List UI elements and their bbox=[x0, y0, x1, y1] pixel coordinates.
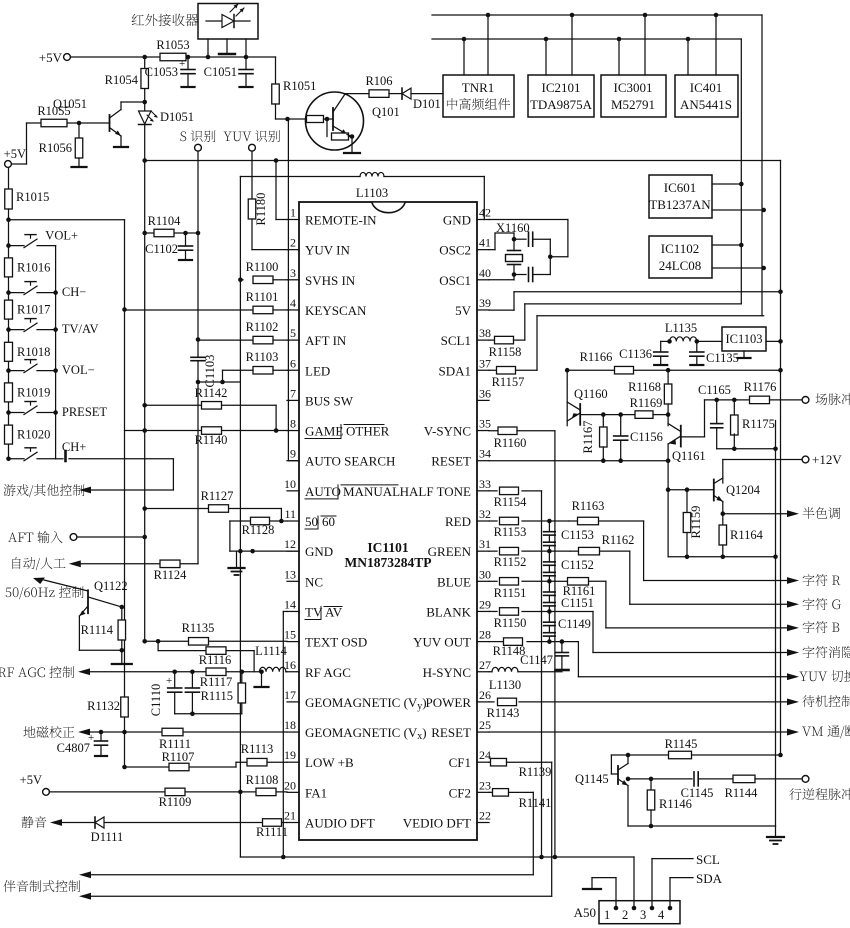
switch CH− bbox=[6, 282, 86, 300]
svg-text:IC2101: IC2101 bbox=[542, 80, 581, 95]
resistor R1055 bbox=[37, 104, 70, 127]
svg-text:C4807: C4807 bbox=[57, 741, 90, 755]
inductor L1130 on H-SYNC bbox=[489, 667, 562, 692]
wire 字符消隐 step bbox=[593, 611, 787, 652]
resistor R1159 vertical bbox=[683, 490, 703, 557]
svg-text:CF2: CF2 bbox=[449, 785, 471, 800]
resistor R1145 bbox=[665, 737, 698, 759]
+5V terminal bottom bbox=[20, 773, 50, 795]
svg-text:10: 10 bbox=[284, 477, 296, 491]
pin 10 label AUTO/MANUAL bbox=[305, 484, 400, 499]
wire R1128 left vertical bbox=[229, 521, 231, 551]
svg-text:C1145: C1145 bbox=[681, 786, 714, 800]
svg-text:CH−: CH− bbox=[62, 285, 86, 299]
resistor R1117 on RF AGC line bbox=[200, 668, 232, 689]
resistor R1128 bbox=[230, 517, 287, 537]
pin 39 stub and number bbox=[477, 296, 491, 310]
IC3001 supply wires bbox=[617, 13, 648, 75]
svg-text:Q1122: Q1122 bbox=[94, 579, 128, 593]
svg-text:R1166: R1166 bbox=[580, 350, 613, 364]
capacitor C4807 polarized bbox=[57, 732, 108, 756]
YUV 识别 terminal bbox=[224, 130, 280, 151]
pin 11 stub and number bbox=[284, 507, 299, 521]
svg-text:R1175: R1175 bbox=[742, 417, 775, 431]
svg-text:CF1: CF1 bbox=[449, 755, 471, 770]
IC1101 notch bbox=[372, 203, 405, 213]
resistor R1150 on BLANK bbox=[489, 608, 593, 630]
pin 41 label OSC2 bbox=[439, 243, 471, 258]
wire Q101 collector to R106 bbox=[345, 93, 370, 95]
resistor R1146 vertical bbox=[647, 779, 692, 828]
pin 41 stub and number bbox=[477, 236, 491, 250]
transistor Q1160 bbox=[567, 370, 607, 426]
pin 21 label AUDIO DFT bbox=[305, 816, 375, 831]
svg-text:C1136: C1136 bbox=[619, 347, 652, 361]
IC1103 ground bbox=[738, 351, 751, 358]
svg-text:28: 28 bbox=[479, 628, 491, 642]
svg-text:R1115: R1115 bbox=[201, 689, 233, 703]
wire FA1 to A50 pin2 bbox=[240, 857, 634, 908]
wire R1127 to pin11 bbox=[279, 509, 284, 524]
A50 pin3 SCL wire bbox=[652, 852, 720, 908]
wire bottom rail Q1204 bbox=[668, 555, 775, 560]
pin 17 stub and number bbox=[284, 688, 299, 702]
pin 28 stub and number bbox=[477, 628, 491, 642]
long horizontal wire top bbox=[142, 158, 780, 163]
svg-text:D1051: D1051 bbox=[160, 110, 194, 124]
wire +5V rail to R1051 corner bbox=[71, 56, 276, 58]
pin 25 label RESET bbox=[431, 725, 471, 740]
wire SDA1 step up bbox=[537, 316, 764, 370]
IR receiver box 红外接收器 bbox=[132, 4, 258, 40]
pin 29 stub and number bbox=[477, 597, 491, 611]
resistor R1108 bbox=[246, 773, 279, 796]
pin 25 stub and number bbox=[477, 718, 491, 732]
capacitor C1145 bbox=[681, 772, 733, 800]
svg-text:R1160: R1160 bbox=[494, 436, 527, 450]
inductor L1135 bbox=[661, 321, 722, 344]
pin 9 stub and number bbox=[287, 447, 299, 461]
wire C1110 cluster bottom bbox=[175, 712, 242, 717]
svg-text:+5V: +5V bbox=[4, 147, 26, 161]
svg-text:VOL+: VOL+ bbox=[45, 229, 78, 243]
transistor Q1145 bbox=[575, 755, 628, 826]
svg-text:30: 30 bbox=[479, 567, 491, 581]
svg-text:23: 23 bbox=[479, 778, 491, 792]
svg-text:14: 14 bbox=[284, 597, 296, 611]
wire 5V step bbox=[489, 290, 783, 311]
svg-text:TB1237AN: TB1237AN bbox=[649, 197, 711, 212]
svg-text:R1145: R1145 bbox=[665, 737, 698, 751]
pin 38 label SCL1 bbox=[441, 333, 471, 348]
wire Q1161 emitter down bbox=[666, 461, 687, 557]
地磁校正 arrow bbox=[23, 726, 287, 738]
svg-text:R1051: R1051 bbox=[283, 79, 316, 93]
pin 22 stub and number bbox=[477, 809, 491, 823]
pin 1 label REMOTE-IN bbox=[305, 213, 377, 228]
LED D1051 bbox=[139, 102, 195, 125]
svg-text:D101: D101 bbox=[413, 97, 441, 111]
svg-text:24LC08: 24LC08 bbox=[659, 258, 702, 273]
svg-text:C1151: C1151 bbox=[561, 596, 594, 610]
svg-text:33: 33 bbox=[479, 477, 491, 491]
AFT输入 terminal bbox=[8, 531, 145, 543]
transistor Q1122 bbox=[79, 579, 127, 653]
待机控制 arrow bbox=[787, 695, 850, 707]
svg-text:C1153: C1153 bbox=[561, 528, 594, 542]
capacitor C1151 bbox=[544, 581, 594, 611]
svg-text:GREEN: GREEN bbox=[428, 544, 472, 559]
resistor R1107 bbox=[125, 750, 237, 771]
resistor R1180 vertical bbox=[248, 151, 287, 249]
pin 30 label BLUE bbox=[437, 574, 471, 589]
wire ladder left bus bbox=[8, 246, 10, 459]
svg-text:42: 42 bbox=[479, 206, 491, 220]
svg-text:AFT IN: AFT IN bbox=[305, 333, 347, 348]
svg-text:+5V: +5V bbox=[20, 773, 42, 787]
svg-text:R1153: R1153 bbox=[494, 525, 527, 539]
pin 3 label SVHS IN bbox=[305, 273, 356, 288]
pin 39 label 5V bbox=[455, 303, 472, 318]
svg-text:R1154: R1154 bbox=[494, 495, 528, 509]
svg-text:POWER: POWER bbox=[426, 695, 472, 710]
svg-text:KEYSCAN: KEYSCAN bbox=[305, 303, 367, 318]
IC box IC2101 TDA9875A bbox=[528, 75, 594, 117]
wire half tone vertical bbox=[539, 491, 544, 859]
diode D1111 bbox=[91, 817, 124, 844]
wire FA1 row bbox=[50, 791, 288, 793]
svg-text:R1056: R1056 bbox=[39, 141, 72, 155]
top bus wire 2 bbox=[432, 38, 741, 40]
svg-text:17: 17 bbox=[284, 688, 296, 702]
svg-text:R1163: R1163 bbox=[572, 499, 605, 513]
svg-text:R1127: R1127 bbox=[201, 489, 234, 503]
伴音制式控制 line1 arrow bbox=[3, 871, 533, 892]
YUV切换 arrow bbox=[787, 670, 850, 682]
svg-text:GND: GND bbox=[305, 544, 333, 559]
pin 23 stub and number bbox=[477, 778, 491, 792]
VM通/断 arrow bbox=[787, 725, 850, 738]
svg-text:R1108: R1108 bbox=[246, 773, 279, 787]
svg-text:R106: R106 bbox=[365, 74, 392, 88]
pin 15 label TEXT OSD bbox=[305, 635, 367, 650]
svg-text:R1055: R1055 bbox=[37, 104, 70, 118]
字符G arrow bbox=[787, 598, 841, 610]
svg-text:50: 50 bbox=[305, 514, 318, 529]
svg-text:R1104: R1104 bbox=[148, 214, 182, 228]
svg-text:+: + bbox=[179, 58, 185, 70]
svg-text:R1116: R1116 bbox=[199, 653, 231, 667]
capacitor C1165 bbox=[698, 383, 731, 449]
wire YUV切换 step bbox=[578, 642, 787, 677]
wire bus x144 bbox=[142, 161, 147, 644]
IC box IC601 TB1237AN bbox=[649, 175, 712, 218]
svg-text:21: 21 bbox=[284, 809, 296, 823]
capacitor C1152 bbox=[544, 551, 594, 581]
svg-text:C1147: C1147 bbox=[520, 653, 553, 667]
wire S识别 vertical bbox=[196, 151, 201, 356]
junction R1054 top bbox=[142, 55, 147, 60]
capacitor C1103 bbox=[191, 355, 217, 388]
wire base row R1055 bbox=[27, 122, 110, 124]
wire keypad top branch bbox=[6, 217, 124, 222]
svg-text:20: 20 bbox=[284, 778, 296, 792]
pin 31 label GREEN bbox=[428, 544, 472, 559]
resistor R1144 bbox=[725, 775, 802, 800]
pin 18 stub and number bbox=[284, 718, 299, 732]
pin 1 stub and number bbox=[287, 206, 299, 220]
Q101 internals bbox=[306, 94, 400, 153]
IR receiver left pin wire bbox=[206, 39, 211, 59]
svg-text:L1103: L1103 bbox=[356, 186, 388, 200]
+5V terminal left mid bbox=[4, 147, 26, 167]
svg-text:SCL: SCL bbox=[696, 852, 720, 867]
svg-text:3: 3 bbox=[290, 266, 296, 280]
svg-text:R1162: R1162 bbox=[602, 533, 635, 547]
IC box IC401 AN5441S bbox=[675, 75, 738, 117]
svg-text:4: 4 bbox=[658, 908, 665, 922]
wire CF1 down to 伴音 line2 bbox=[551, 762, 553, 896]
wire R1142 to pin8 bbox=[274, 405, 279, 433]
svg-text:27: 27 bbox=[479, 658, 491, 672]
pin 17 label GEOMAGNETIC (Vy) bbox=[305, 695, 427, 712]
svg-text:LED: LED bbox=[305, 363, 330, 378]
pin 10 stub and number bbox=[284, 477, 299, 491]
pin12 ground symbol bbox=[229, 551, 245, 575]
pin 24 label CF1 bbox=[449, 755, 471, 770]
IC1102 wires to buses bbox=[712, 243, 766, 271]
pin 30 stub and number bbox=[477, 567, 491, 581]
wire long vertical x240 ground chain lower bbox=[238, 382, 243, 857]
pin12 GND wire bbox=[230, 549, 299, 554]
svg-text:11: 11 bbox=[284, 507, 296, 521]
pin 19 stub and number bbox=[284, 748, 299, 762]
pin 32 stub and number bbox=[477, 507, 491, 521]
IR receiver middle pin wire with bar bbox=[219, 39, 235, 54]
svg-text:R1124: R1124 bbox=[154, 568, 188, 582]
svg-text:4: 4 bbox=[290, 296, 296, 310]
svg-text:RED: RED bbox=[445, 514, 471, 529]
wire +5V left to R1055 branch bbox=[12, 123, 27, 164]
pin 34 label RESET bbox=[431, 454, 471, 469]
pin 13 label NC bbox=[305, 574, 323, 589]
capacitor C1135 bbox=[690, 341, 739, 365]
svg-text:H-SYNC: H-SYNC bbox=[423, 665, 471, 680]
svg-text:SDA1: SDA1 bbox=[438, 363, 471, 378]
pin 13 stub and number bbox=[284, 567, 299, 581]
top bus wire 1 bbox=[432, 14, 762, 16]
svg-text:R1142: R1142 bbox=[195, 386, 228, 400]
svg-text:9: 9 bbox=[290, 447, 296, 461]
svg-text:A50: A50 bbox=[574, 905, 596, 920]
switch VOL− bbox=[6, 360, 94, 378]
capacitor C1051 bbox=[204, 57, 253, 87]
svg-text:RF AGC: RF AGC bbox=[305, 665, 351, 680]
capacitor C1110b bbox=[185, 669, 199, 713]
svg-text:R1139: R1139 bbox=[519, 765, 552, 779]
pin 24 stub and number bbox=[477, 748, 491, 762]
capacitor on OSC1 bbox=[514, 268, 550, 282]
svg-text:REMOTE-IN: REMOTE-IN bbox=[305, 213, 377, 228]
IC box TNR1 bbox=[443, 75, 514, 117]
pin 8 stub and number bbox=[287, 417, 299, 431]
svg-text:YUV OUT: YUV OUT bbox=[413, 635, 471, 650]
svg-text:R1111: R1111 bbox=[256, 825, 288, 839]
svg-text:X1160: X1160 bbox=[496, 221, 530, 235]
svg-text:IC1101: IC1101 bbox=[367, 540, 409, 555]
svg-text:+5V: +5V bbox=[39, 50, 63, 65]
pin 21 stub and number bbox=[284, 809, 299, 823]
svg-text:+: + bbox=[166, 675, 172, 687]
svg-text:R1019: R1019 bbox=[17, 385, 50, 399]
wire TV/AV long vertical bbox=[281, 611, 286, 859]
svg-text:IC3001: IC3001 bbox=[614, 80, 653, 95]
svg-text:HALF TONE: HALF TONE bbox=[400, 484, 471, 499]
resistor R1141 on CF2 bbox=[489, 789, 551, 810]
svg-text:AUTO SEARCH: AUTO SEARCH bbox=[305, 454, 395, 469]
svg-text:NC: NC bbox=[305, 574, 323, 589]
svg-text:C1152: C1152 bbox=[561, 558, 594, 572]
resistor R1167 vertical bbox=[581, 415, 607, 461]
transistor Q1051 bbox=[53, 97, 147, 147]
pin 35 stub and number bbox=[477, 417, 491, 431]
resistor R1151 on BLUE bbox=[489, 578, 555, 600]
pin 15 stub and number bbox=[284, 628, 299, 642]
svg-text:YUV IN: YUV IN bbox=[305, 243, 351, 258]
wire keypad right bus bbox=[55, 246, 57, 459]
capacitor C1153 bbox=[544, 521, 594, 551]
pin 27 stub and number bbox=[477, 658, 491, 672]
resistor R1143 on POWER bbox=[487, 698, 787, 720]
pin 28 label YUV OUT bbox=[413, 635, 471, 650]
capacitor C1102 bbox=[145, 233, 192, 260]
resistor R1102 on AFT IN bbox=[198, 320, 287, 344]
svg-text:R1158: R1158 bbox=[489, 345, 522, 359]
resistor R1015 vertical bbox=[5, 168, 50, 246]
字符R arrow bbox=[787, 574, 840, 586]
wire CF2 down to 伴音 line1 bbox=[532, 792, 534, 874]
自动/人工 arrow bbox=[12, 557, 198, 570]
pin 12 stub and number bbox=[284, 537, 299, 551]
svg-text:OSC2: OSC2 bbox=[439, 243, 471, 258]
svg-text:TV: TV bbox=[305, 604, 323, 619]
svg-text:M52791: M52791 bbox=[611, 97, 655, 112]
svg-text:R1168: R1168 bbox=[628, 380, 661, 394]
svg-text:BLUE: BLUE bbox=[437, 574, 471, 589]
resistor R1101 on KEYSCAN bbox=[125, 290, 288, 314]
pin 37 stub and number bbox=[477, 356, 491, 370]
IR receiver right pin wire bbox=[244, 39, 249, 59]
resistor R1169 bbox=[630, 396, 669, 418]
svg-text:R1016: R1016 bbox=[17, 260, 50, 274]
svg-text:D1111: D1111 bbox=[91, 830, 124, 844]
pin 38 stub and number bbox=[477, 326, 491, 340]
游戏/其他控制 arrow bbox=[4, 459, 174, 497]
svg-text:R1111: R1111 bbox=[159, 737, 191, 751]
svg-text:R1143: R1143 bbox=[487, 706, 520, 720]
svg-text:Q1160: Q1160 bbox=[574, 387, 608, 401]
svg-text:GEOMAGNETIC (Vy): GEOMAGNETIC (Vy) bbox=[305, 695, 427, 712]
pin 5 stub and number bbox=[287, 326, 299, 340]
resistor R1111 pin21 bbox=[256, 819, 288, 839]
RF AGC 控制 arrow bbox=[0, 666, 259, 678]
wire Q1161 base to C1165 rail bbox=[681, 400, 705, 437]
pin 19 label LOW +B bbox=[305, 755, 354, 770]
svg-text:R1132: R1132 bbox=[87, 699, 120, 713]
+5V terminal top bbox=[39, 50, 71, 65]
capacitor C1156 bbox=[614, 415, 663, 461]
resistor R1056 vertical bbox=[39, 123, 87, 167]
inductor L1114 bbox=[255, 644, 287, 672]
vertical bus right x780 bbox=[780, 161, 782, 756]
svg-text:VEDIO DFT: VEDIO DFT bbox=[403, 816, 471, 831]
IC1103 right wire bbox=[766, 339, 783, 344]
svg-text:+12V: +12V bbox=[812, 452, 842, 467]
resistor R1176 bbox=[744, 380, 802, 404]
capacitor C1053 polarized bbox=[145, 55, 195, 87]
wire 字符R step bbox=[644, 521, 787, 581]
wire R1051 branch down bbox=[275, 57, 277, 84]
svg-text:R1100: R1100 bbox=[246, 260, 279, 274]
svg-text:R1114: R1114 bbox=[81, 623, 114, 637]
IC2101 supply wires bbox=[544, 13, 575, 75]
resistor R1132 vertical bbox=[87, 697, 128, 717]
pin 4 label KEYSCAN bbox=[305, 303, 367, 318]
pin 26 label POWER bbox=[426, 695, 472, 710]
connector A50 box bbox=[574, 901, 680, 924]
resistor R1018 vertical bbox=[5, 342, 51, 361]
svg-text:R1180: R1180 bbox=[254, 193, 268, 226]
pin 14 stub and number bbox=[284, 597, 299, 611]
capacitor on OSC2 bbox=[514, 232, 550, 246]
S 识别 terminal bbox=[180, 130, 215, 151]
vertical wire x775 bbox=[773, 421, 778, 827]
resistor R1166 bbox=[580, 350, 634, 374]
svg-text:C1135: C1135 bbox=[706, 351, 739, 365]
svg-text:VOL−: VOL− bbox=[62, 363, 95, 377]
wire R1169 row bbox=[601, 412, 670, 417]
pin 23 label CF2 bbox=[449, 785, 471, 800]
resistor R1051 vertical bbox=[272, 79, 317, 119]
wire Q1160 bottom rail pin34 bbox=[489, 458, 670, 463]
transistor Q1161 bbox=[668, 415, 705, 463]
svg-text:15: 15 bbox=[284, 628, 296, 642]
svg-text:R1140: R1140 bbox=[195, 433, 228, 447]
resistor R1116 bbox=[158, 641, 254, 671]
pin 6 stub and number bbox=[287, 356, 299, 370]
pin 5 label AFT IN bbox=[305, 333, 347, 348]
svg-text:R1103: R1103 bbox=[246, 350, 279, 364]
行逆程脉冲 terminal bbox=[789, 776, 850, 800]
wire C1103 bottom row bbox=[196, 380, 241, 385]
svg-text:PRESET: PRESET bbox=[62, 405, 108, 419]
IC401 supply wires bbox=[686, 13, 719, 75]
pin 4 stub and number bbox=[287, 296, 299, 310]
resistor R1160 on V-SYNC bbox=[489, 427, 555, 450]
resistor R1127 bbox=[145, 489, 282, 512]
svg-text:R1152: R1152 bbox=[494, 555, 527, 569]
svg-text:Q101: Q101 bbox=[372, 105, 400, 119]
pin 20 label FA1 bbox=[305, 785, 327, 800]
crystal caps common ground wire to pin42 bbox=[489, 220, 568, 275]
svg-text:R1017: R1017 bbox=[17, 303, 50, 317]
字符消隐 arrow bbox=[787, 646, 850, 658]
svg-text:R1101: R1101 bbox=[246, 290, 279, 304]
diode D101 bbox=[402, 88, 443, 111]
svg-text:OTHER: OTHER bbox=[346, 424, 390, 439]
svg-text:35: 35 bbox=[479, 417, 491, 431]
svg-text:6: 6 bbox=[290, 356, 296, 370]
